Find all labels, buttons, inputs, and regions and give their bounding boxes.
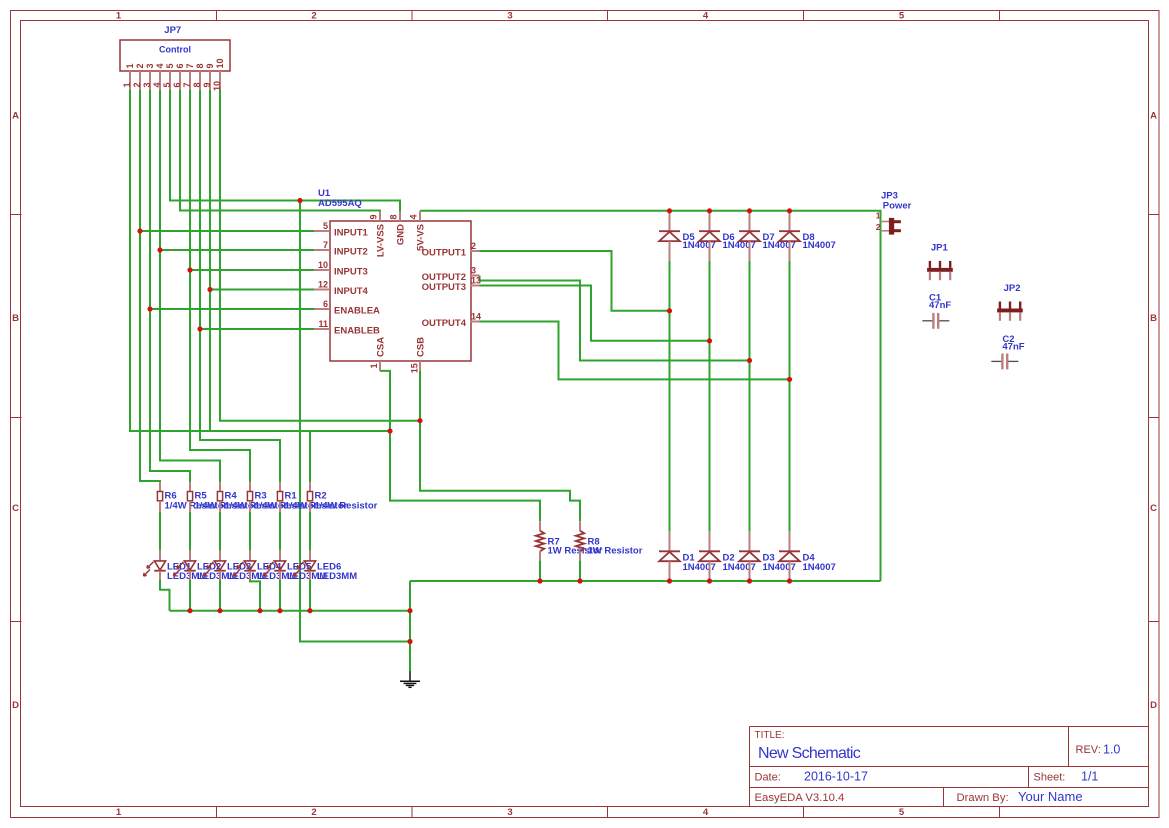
- svg-text:EasyEDA V3.10.4: EasyEDA V3.10.4: [755, 792, 845, 804]
- svg-text:INPUT3: INPUT3: [334, 267, 368, 278]
- svg-text:2: 2: [311, 807, 316, 818]
- svg-text:Your Name: Your Name: [1018, 789, 1083, 804]
- svg-text:3: 3: [471, 266, 476, 276]
- svg-text:12: 12: [318, 280, 328, 290]
- svg-text:OUTPUT4: OUTPUT4: [422, 318, 467, 329]
- svg-text:A: A: [12, 111, 19, 122]
- svg-text:GND: GND: [396, 224, 407, 245]
- svg-text:1: 1: [116, 807, 122, 818]
- svg-text:Sheet:: Sheet:: [1034, 772, 1066, 784]
- svg-text:4: 4: [155, 63, 165, 68]
- svg-text:2: 2: [471, 241, 476, 251]
- svg-text:LV-VSS: LV-VSS: [376, 224, 387, 257]
- svg-text:Control: Control: [159, 44, 191, 54]
- svg-text:5: 5: [165, 63, 175, 68]
- svg-text:REV:: REV:: [1076, 744, 1101, 756]
- svg-text:New Schematic: New Schematic: [758, 745, 861, 762]
- svg-text:2: 2: [876, 222, 881, 232]
- svg-text:3: 3: [507, 807, 512, 818]
- svg-text:1/4W Resistor: 1/4W Resistor: [315, 501, 378, 512]
- svg-text:4: 4: [703, 11, 709, 22]
- svg-text:TITLE:: TITLE:: [755, 730, 785, 741]
- svg-text:B: B: [1150, 313, 1157, 324]
- svg-text:1/1: 1/1: [1081, 770, 1098, 784]
- svg-text:1N4007: 1N4007: [763, 562, 796, 573]
- svg-text:5: 5: [162, 82, 172, 87]
- svg-text:3: 3: [142, 82, 152, 87]
- svg-text:2: 2: [311, 11, 316, 22]
- svg-text:47nF: 47nF: [1002, 342, 1024, 353]
- svg-text:1N4007: 1N4007: [683, 562, 716, 573]
- svg-text:14: 14: [471, 312, 481, 322]
- svg-text:7: 7: [182, 82, 192, 87]
- svg-text:D: D: [1150, 700, 1157, 711]
- svg-text:9: 9: [202, 82, 212, 87]
- svg-text:13: 13: [471, 276, 481, 286]
- svg-text:C: C: [12, 503, 19, 514]
- svg-text:LED3MM: LED3MM: [317, 571, 357, 582]
- svg-text:OUTPUT3: OUTPUT3: [422, 282, 466, 293]
- svg-text:8: 8: [195, 63, 205, 68]
- svg-text:1: 1: [125, 63, 135, 68]
- svg-text:3: 3: [145, 63, 155, 68]
- svg-text:10: 10: [215, 58, 225, 68]
- svg-text:11: 11: [318, 319, 328, 329]
- svg-text:JP2: JP2: [1004, 283, 1021, 294]
- svg-text:4: 4: [703, 807, 709, 818]
- svg-text:INPUT4: INPUT4: [334, 286, 369, 297]
- svg-text:4: 4: [152, 82, 162, 87]
- svg-text:OUTPUT1: OUTPUT1: [422, 248, 467, 259]
- svg-text:5: 5: [899, 807, 905, 818]
- svg-text:INPUT1: INPUT1: [334, 228, 369, 239]
- svg-text:6: 6: [172, 82, 182, 87]
- svg-text:1.0: 1.0: [1103, 743, 1120, 757]
- svg-text:6: 6: [323, 299, 328, 309]
- svg-text:2016-10-17: 2016-10-17: [804, 770, 868, 784]
- svg-text:1: 1: [116, 11, 122, 22]
- svg-text:D: D: [12, 700, 19, 711]
- svg-text:1: 1: [876, 211, 881, 221]
- svg-text:5: 5: [323, 221, 328, 231]
- svg-text:9: 9: [205, 63, 215, 68]
- svg-text:8: 8: [389, 214, 399, 219]
- svg-text:7: 7: [185, 63, 195, 68]
- svg-text:B: B: [12, 313, 19, 324]
- svg-text:5V-VS: 5V-VS: [416, 224, 427, 251]
- svg-text:CSA: CSA: [376, 337, 387, 357]
- svg-text:1: 1: [369, 363, 379, 368]
- svg-text:6: 6: [175, 63, 185, 68]
- svg-text:CSB: CSB: [416, 337, 427, 357]
- svg-text:INPUT2: INPUT2: [334, 247, 368, 258]
- svg-text:2: 2: [135, 63, 145, 68]
- svg-text:C: C: [1150, 503, 1157, 514]
- svg-text:JP1: JP1: [931, 242, 949, 253]
- svg-text:AD595AQ: AD595AQ: [318, 198, 362, 209]
- svg-text:ENABLEA: ENABLEA: [334, 306, 380, 317]
- svg-text:47nF: 47nF: [929, 300, 951, 311]
- svg-text:1N4007: 1N4007: [723, 562, 756, 573]
- svg-text:2: 2: [132, 82, 142, 87]
- svg-text:1N4007: 1N4007: [803, 562, 836, 573]
- svg-text:8: 8: [192, 82, 202, 87]
- svg-text:10: 10: [212, 81, 222, 91]
- svg-text:ENABLEB: ENABLEB: [334, 326, 380, 337]
- svg-text:1: 1: [122, 82, 132, 87]
- svg-text:Drawn By:: Drawn By:: [957, 792, 1009, 804]
- svg-text:Date:: Date:: [755, 772, 781, 784]
- svg-text:3: 3: [507, 11, 512, 22]
- svg-text:Power: Power: [883, 200, 912, 211]
- svg-text:1N4007: 1N4007: [803, 240, 836, 251]
- svg-text:JP7: JP7: [164, 25, 181, 36]
- svg-text:10: 10: [318, 260, 328, 270]
- svg-text:9: 9: [369, 214, 379, 219]
- svg-text:7: 7: [323, 240, 328, 250]
- svg-text:15: 15: [410, 363, 420, 373]
- svg-text:4: 4: [409, 214, 419, 219]
- svg-text:A: A: [1150, 111, 1157, 122]
- svg-text:1W Resistor: 1W Resistor: [588, 545, 643, 556]
- svg-text:5: 5: [899, 11, 905, 22]
